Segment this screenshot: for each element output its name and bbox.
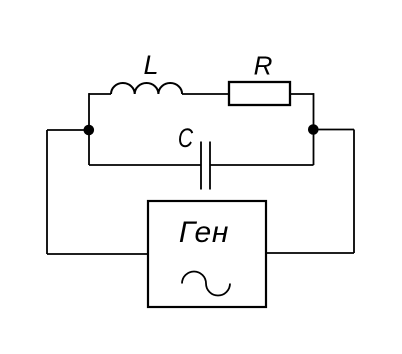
wire right dot to outer loop (313, 129, 354, 131)
generator box U1 (148, 201, 266, 307)
wire right outer bottom horizontal (266, 252, 354, 254)
wire capacitor branch left (89, 164, 201, 166)
wire top branch left segment (89, 93, 111, 95)
wire between inductor and resistor (182, 93, 229, 95)
svg-text:R: R (254, 51, 273, 81)
wire resistor to right vertical (290, 93, 314, 95)
sine wave symbol (182, 272, 230, 296)
wire left outer vertical (46, 130, 48, 254)
svg-text:L: L (143, 50, 158, 80)
wire left dot to outer loop (47, 129, 89, 131)
capacitor C plates (201, 142, 210, 190)
wire capacitor branch right (210, 164, 314, 166)
wire right vertical (top branch to capacitor branch) (313, 93, 315, 165)
node junction left dot (84, 125, 95, 136)
resistor R (229, 82, 290, 105)
node junction right dot (308, 124, 319, 135)
wire left outer bottom horizontal (47, 253, 148, 255)
wire right outer vertical (353, 130, 355, 254)
svg-text:Ген: Ген (179, 216, 229, 249)
svg-text:C: C (178, 124, 194, 154)
wire left vertical (top branch to capacitor branch) (88, 93, 90, 165)
inductor L (111, 83, 182, 94)
